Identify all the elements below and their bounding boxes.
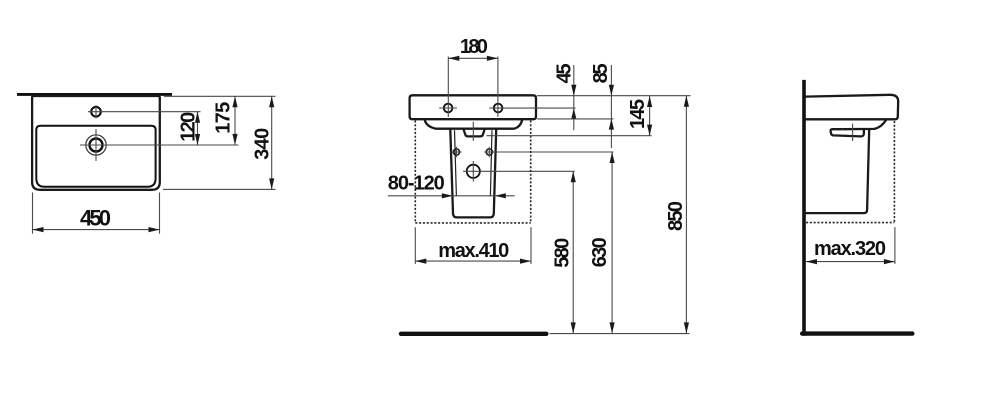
fixing bracket bbox=[464, 129, 485, 136]
svg-text:580: 580 bbox=[551, 238, 573, 268]
mounting hole left bbox=[439, 104, 457, 113]
basin outer outline bbox=[32, 96, 160, 190]
floor line (side view) bbox=[802, 331, 912, 335]
dimension 450 bbox=[33, 193, 160, 234]
pedestal hole right bbox=[486, 147, 492, 157]
dimension max.410 bbox=[415, 227, 531, 264]
overflow scoop bbox=[831, 129, 864, 136]
basin fascia bbox=[410, 95, 536, 119]
extension line bracket bottom (y=135.7) bbox=[487, 135, 652, 137]
basin side profile bbox=[806, 95, 899, 120]
svg-text:max.320: max.320 bbox=[814, 238, 886, 260]
drain inner circle bbox=[90, 139, 103, 152]
pedestal inner line right bbox=[490, 130, 492, 196]
floor extension line bbox=[550, 333, 690, 335]
extension line pedestal holes to 630-dim (y=152) bbox=[484, 151, 613, 153]
dimension 85 bbox=[590, 63, 614, 148]
pedestal inner line left bbox=[455, 130, 457, 196]
extension line faucet (y=111.7) bbox=[88, 111, 201, 113]
dimension 120 bbox=[177, 112, 200, 145]
dimension 340 bbox=[251, 96, 274, 189]
dimension 45 bbox=[553, 63, 576, 130]
dashed installation box bbox=[415, 121, 530, 223]
extension line fascia bottom (y=118.9) bbox=[537, 118, 614, 120]
svg-text:175: 175 bbox=[213, 102, 235, 134]
bracket centerline bbox=[472, 122, 474, 141]
svg-text:80-120: 80-120 bbox=[388, 173, 445, 195]
dimension 630 bbox=[589, 152, 615, 333]
drain vertical centerline bbox=[95, 129, 97, 161]
dimension 175 bbox=[213, 96, 238, 145]
svg-text:630: 630 bbox=[589, 237, 611, 267]
dimension 580 bbox=[551, 171, 575, 333]
dimension 145 bbox=[627, 96, 652, 136]
svg-text:85: 85 bbox=[590, 63, 612, 83]
bowl underside side bbox=[843, 119, 887, 129]
svg-text:max.410: max.410 bbox=[438, 240, 509, 262]
floor line (front view) bbox=[401, 332, 546, 336]
dimension max.320 bbox=[806, 227, 895, 264]
extension line top edge (y=96.3) bbox=[164, 95, 276, 97]
svg-text:850: 850 bbox=[665, 201, 687, 231]
dimension 180 bbox=[448, 36, 498, 61]
drain outer circle bbox=[86, 135, 106, 155]
bowl underside bbox=[425, 119, 523, 128]
svg-text:180: 180 bbox=[460, 36, 488, 58]
mounting hole right bbox=[494, 104, 503, 113]
extension line siphon to 580-dim (y=171.3) bbox=[484, 170, 575, 172]
180 extension verticals bbox=[447, 57, 449, 118]
svg-text:450: 450 bbox=[80, 205, 111, 230]
svg-text:145: 145 bbox=[627, 99, 649, 129]
svg-text:340: 340 bbox=[251, 128, 273, 160]
siphon outlet bbox=[463, 161, 484, 182]
side centerline bbox=[852, 124, 854, 141]
wall edge line bbox=[17, 93, 172, 96]
extension line drain (y=145) bbox=[80, 144, 239, 146]
faucet hole bbox=[91, 105, 101, 118]
svg-text:45: 45 bbox=[553, 63, 575, 83]
extension line holes to 45-dim (y=108.1) bbox=[489, 107, 575, 109]
pedestal hole left bbox=[451, 147, 461, 157]
svg-text:120: 120 bbox=[177, 112, 199, 142]
pedestal outline bbox=[450, 130, 496, 218]
dimension 850 bbox=[665, 96, 689, 334]
wall line bbox=[802, 80, 806, 336]
extension line rim top (y=95.7) bbox=[537, 95, 691, 97]
dashed depth box bbox=[806, 121, 894, 223]
pedestal side profile bbox=[806, 129, 870, 213]
basin inner bowl outline bbox=[36, 126, 155, 187]
dimension 80-120 bbox=[388, 173, 515, 199]
extension line bottom edge (y=189.4) bbox=[163, 188, 276, 190]
